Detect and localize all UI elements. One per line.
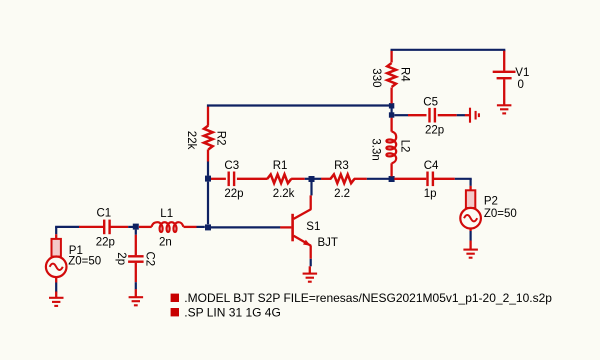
wire C1 to node A [128, 226, 133, 228]
svg-text:3.3n: 3.3n [369, 138, 381, 160]
wire emitter to ground [310, 259, 312, 267]
port P2 [469, 186, 471, 191]
svg-text:C5: C5 [423, 97, 438, 109]
capacitor C5 plates [428, 108, 430, 123]
svg-text:C1: C1 [97, 208, 112, 220]
port P1 symbol [46, 239, 67, 277]
resistor R4 [390, 88, 392, 104]
svg-text:.MODEL BJT S2P FILE=renesas/NE: .MODEL BJT S2P FILE=renesas/NESG2021M05v… [184, 291, 552, 305]
svg-text:P2: P2 [484, 196, 498, 208]
svg-text:2.2: 2.2 [334, 188, 350, 200]
svg-text:C3: C3 [224, 160, 239, 172]
svg-text:V1: V1 [515, 67, 529, 79]
resistor R1 [267, 174, 291, 183]
resistor R3 zigzag [331, 174, 355, 183]
wire P1 top corner horizontal [55, 226, 79, 228]
wire P1 top corner vertical [55, 227, 57, 234]
resistor R3 [321, 178, 331, 180]
svg-text:R3: R3 [334, 160, 349, 172]
inductor L1 [139, 226, 152, 228]
resistor R2 zigzag [204, 126, 213, 150]
wire C5 to ground stub [457, 114, 465, 116]
svg-text:2.2k: 2.2k [273, 188, 295, 200]
wire node E down to collector [310, 182, 312, 196]
simulation marker square 2 [171, 308, 179, 316]
capacitor C2 plates [128, 255, 144, 257]
svg-text:.SP LIN 31 1G 4G: .SP LIN 31 1G 4G [184, 305, 280, 319]
node E junction [309, 176, 315, 182]
svg-text:R1: R1 [273, 160, 288, 172]
svg-text:L2: L2 [398, 140, 410, 153]
node G junction upper [389, 103, 394, 108]
resistor R4 zigzag [387, 63, 396, 87]
wire node A down to C2 [135, 230, 137, 235]
svg-text:Z0=50: Z0=50 [68, 256, 101, 268]
svg-text:Z0=50: Z0=50 [484, 208, 517, 220]
wire node B to BJT base [211, 226, 281, 228]
ground below P2 [463, 241, 478, 258]
wire C4 to P2 corner [455, 178, 472, 180]
capacitor C1 [79, 226, 104, 228]
node A junction [133, 224, 139, 230]
wire between node G junctions [391, 108, 393, 112]
svg-text:22k: 22k [185, 131, 197, 150]
wire C2 to ground [135, 282, 137, 289]
capacitor C2 [135, 235, 137, 256]
svg-text:C2: C2 [143, 252, 155, 267]
svg-text:R4: R4 [398, 67, 410, 82]
ground right of C5 [465, 108, 479, 123]
svg-text:L1: L1 [160, 208, 173, 220]
ground below S1 emitter [303, 266, 318, 281]
svg-text:2n: 2n [159, 236, 172, 248]
port P1 [55, 234, 57, 239]
node G junction lower [389, 112, 394, 117]
capacitor C4 [394, 178, 426, 180]
svg-text:C4: C4 [424, 160, 439, 172]
svg-text:BJT: BJT [318, 237, 338, 249]
svg-text:330: 330 [370, 68, 382, 87]
capacitor C4 plates [426, 172, 428, 187]
wire L1 to node B [197, 226, 205, 228]
wire R2 top to node D horizontal [207, 104, 392, 106]
svg-text:2p: 2p [115, 252, 127, 265]
inductor L1 coil [152, 222, 184, 232]
capacitor C1 plates [103, 220, 105, 235]
svg-text:22p: 22p [224, 188, 243, 200]
wire node C up to R2 [207, 161, 209, 176]
inductor L2 coil [386, 131, 396, 163]
wire P2 to ground [470, 231, 472, 241]
svg-text:0: 0 [518, 79, 524, 91]
node B junction [205, 224, 211, 230]
svg-text:S1: S1 [306, 221, 320, 233]
voltage source V1 [493, 51, 516, 100]
ground below C2 [129, 289, 144, 305]
svg-text:1p: 1p [424, 188, 437, 200]
wire node G to C5 [394, 114, 408, 116]
wire R4 top to V1 horizontal [391, 49, 506, 51]
capacitor C3 plates [228, 172, 230, 187]
simulation marker square 1 [171, 294, 179, 302]
wire node B up to node C [207, 182, 209, 225]
ground below P1 [49, 292, 64, 306]
wire R3 to node F [367, 178, 389, 180]
capacitor C3 [211, 178, 226, 180]
svg-text:R2: R2 [215, 131, 227, 146]
resistor R2 [207, 149, 209, 161]
inductor L2 [390, 163, 392, 176]
transistor S1 [280, 195, 311, 258]
capacitor C5 [408, 114, 427, 116]
node C junction [205, 176, 211, 182]
wire P2 corner vertical [470, 179, 472, 186]
wire node E to R3 [315, 178, 322, 180]
svg-text:22p: 22p [96, 236, 115, 248]
wire R1 to node E [305, 178, 309, 180]
node F junction [389, 176, 395, 182]
ground below V1 [497, 99, 512, 113]
svg-text:22p: 22p [425, 125, 444, 137]
wire V1 corner vertical [503, 50, 505, 52]
port P2 symbol [460, 190, 481, 228]
wire P1 to ground [55, 283, 57, 293]
